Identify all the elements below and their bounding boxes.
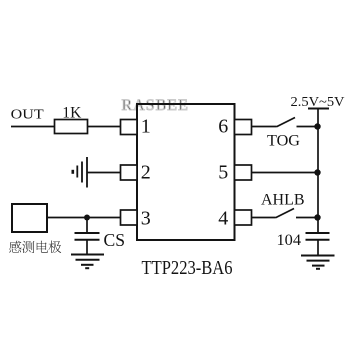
svg-text:TOG: TOG	[267, 133, 300, 150]
svg-text:3: 3	[141, 207, 151, 229]
svg-text:CS: CS	[104, 230, 126, 250]
capacitor CS plates	[75, 233, 100, 240]
pin 6 box	[235, 120, 252, 135]
svg-text:104: 104	[277, 232, 302, 249]
wire earth to pin 2	[87, 172, 121, 174]
junction node AHLB rail	[314, 214, 320, 220]
pin 3 box	[121, 210, 138, 225]
svg-text:RASBEE: RASBEE	[122, 97, 189, 114]
svg-text:1: 1	[141, 116, 151, 138]
wire electrode to pin 3	[47, 217, 121, 219]
capacitor C1 lead lower	[317, 240, 319, 256]
ground (below 104)	[301, 256, 335, 269]
capacitor C1 104 plates	[306, 233, 330, 240]
touch electrode pad box	[12, 204, 47, 232]
svg-text:6: 6	[218, 116, 228, 138]
svg-text:OUT: OUT	[11, 108, 45, 123]
VCC supply bar	[308, 108, 329, 110]
pin 4 box	[235, 210, 252, 225]
svg-text:AHLB: AHLB	[261, 192, 305, 209]
pin 2 box	[121, 165, 138, 180]
electrode label 感测电极	[9, 241, 61, 253]
switch AHLB lever	[276, 209, 295, 218]
svg-text:TTP223-BA6: TTP223-BA6	[142, 257, 233, 279]
wire switch AHLB to rail	[296, 217, 318, 219]
ground (below CS)	[71, 255, 104, 269]
capacitor CS lead upper	[86, 218, 88, 234]
junction node pin5 rail	[314, 169, 320, 175]
wire pin 4 to switch AHLB	[252, 217, 276, 219]
capacitor CS lead lower	[86, 240, 88, 255]
wire pin 6 to switch TOG	[252, 126, 277, 128]
VCC rail wire	[317, 109, 319, 234]
svg-text:2: 2	[141, 162, 151, 184]
wire switch TOG to rail	[297, 126, 319, 128]
wire pin 5 to rail	[252, 172, 319, 174]
svg-text:1K: 1K	[62, 105, 81, 122]
switch TOG lever	[277, 118, 296, 127]
ground (sideways earth at pin 2)	[73, 157, 87, 188]
junction node TOG rail	[314, 123, 320, 129]
svg-text:4: 4	[218, 207, 228, 229]
wire resistor R1 to pin 1	[88, 126, 121, 128]
IC U1 TTP223-BA6 body	[137, 104, 235, 240]
resistor R1 1K body	[55, 120, 88, 134]
junction node at CS	[84, 215, 90, 221]
svg-text:5: 5	[218, 162, 228, 184]
wire OUT to resistor R1	[11, 126, 55, 128]
pin 1 box	[121, 120, 138, 135]
pin 5 box	[235, 165, 252, 180]
